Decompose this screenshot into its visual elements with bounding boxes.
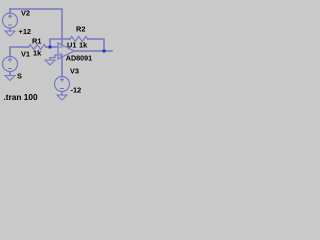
- svg-text:.tran 100: .tran 100: [4, 92, 39, 102]
- svg-text:V1: V1: [21, 50, 30, 59]
- svg-text:U1: U1: [67, 41, 76, 50]
- svg-text:AD8091: AD8091: [66, 54, 92, 63]
- svg-text:V2: V2: [21, 9, 30, 18]
- svg-text:-12: -12: [71, 86, 82, 95]
- svg-text:V3: V3: [70, 67, 79, 76]
- svg-text:1k: 1k: [33, 49, 42, 58]
- svg-text:1k: 1k: [79, 41, 88, 50]
- svg-text:S: S: [17, 72, 22, 81]
- svg-text:R2: R2: [76, 25, 85, 34]
- svg-text:R1: R1: [32, 37, 41, 46]
- svg-text:+12: +12: [19, 27, 32, 36]
